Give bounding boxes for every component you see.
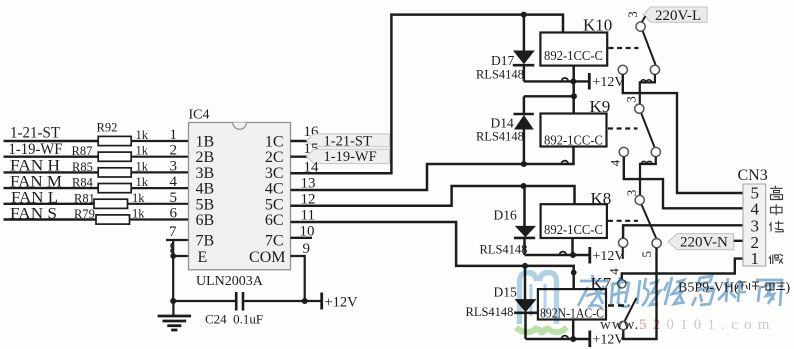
wire pin 7B: [166, 240, 190, 301]
label Chinese high: [770, 186, 783, 200]
wire pin 14 3C to relay K10: [291, 15, 564, 174]
wire K8 +12V rail: [525, 254, 590, 256]
junction 7B/E: [170, 253, 176, 259]
wire pin 13 4C to relay K9: [291, 147, 574, 190]
power +12V at COM: [322, 293, 358, 311]
resistor R79: [96, 215, 130, 224]
relay contact K9: [607, 96, 660, 166]
wire R79 to pin 6: [130, 218, 190, 220]
junction pin12 rail / D16: [521, 183, 527, 189]
wire K8 NC stub: [622, 247, 624, 259]
wire pin 12 5C to relay K8: [291, 186, 575, 206]
diode D17 RLS4148: [476, 15, 535, 82]
junction K7 coil / rail: [570, 336, 576, 342]
net flag 220V-L: [643, 7, 707, 24]
power +12V at K10: [589, 73, 624, 90]
wire K10 +12V rail: [524, 80, 589, 82]
junction pin11 rail / D15: [522, 263, 528, 269]
wire K9 NO to K8 common: [640, 157, 656, 196]
wire 1-19-WF to R87: [4, 155, 99, 157]
label B5P9-VH connector type: [678, 278, 791, 295]
wire K10 NC to CN3 pin 5: [623, 74, 743, 193]
junction pin14 rail / D17: [521, 12, 527, 18]
wire C24 rail: [173, 300, 321, 302]
wire pin 10 stub: [291, 237, 313, 239]
junction E / ground: [170, 298, 176, 304]
ground: [158, 301, 192, 330]
wire R92 to pin 1: [131, 140, 189, 142]
wire D14 top rail: [524, 95, 574, 97]
label Chinese low: [770, 221, 784, 232]
wire COM pin 9 to +12V: [291, 256, 305, 301]
net flag 1-19-WF pin15: [307, 149, 390, 165]
diode D16 RLS4148: [480, 186, 537, 257]
wire FAN S to R79: [4, 218, 97, 220]
wire K8 NO to K7 common: [622, 248, 657, 339]
wire 220V-L stub: [642, 16, 646, 23]
wire pin 11 6C to relay K7: [291, 222, 574, 289]
junction pin13 rail / D14: [521, 161, 527, 167]
wire R87 to pin 2: [131, 156, 189, 158]
junction K8 coil / +12V: [570, 252, 576, 258]
diode D15 RLS4148: [466, 266, 539, 339]
relay coil K7 892N-1AC-C: [538, 274, 612, 321]
wire R81 to pin 5: [128, 203, 190, 205]
IC U IC4 ULN2003A: [189, 108, 291, 289]
wire 220V-N to CN3 pin 2: [734, 240, 743, 242]
resistor R92: [98, 136, 131, 145]
wire FAN H to R85: [4, 171, 99, 173]
resistor R81: [94, 199, 128, 208]
resistor R87: [98, 152, 131, 161]
junction K10 coil / +12V: [570, 78, 576, 84]
relay coil K10 892-1CC-C: [540, 16, 612, 66]
wire FAN M to R84: [4, 187, 99, 189]
label Chinese micro: [769, 254, 783, 264]
net flag 220V-N: [668, 234, 734, 251]
wire E pin: [173, 255, 189, 257]
wire 1-21-ST to R92: [4, 140, 99, 142]
wire R85 to pin 3: [131, 171, 189, 173]
wire K8 NC to CN3 pin 3: [623, 225, 743, 238]
svg-text:520101.com: 520101.com: [639, 317, 776, 333]
relay coil K8 892-1CC-C: [541, 189, 612, 238]
relay coil K9 892-1CC-C: [541, 97, 611, 148]
diode D14 RLS4148: [476, 96, 534, 164]
relay contact K8: [608, 190, 661, 258]
net flag 1-21-ST pin16: [307, 133, 390, 149]
wire K10 NO to K9 common: [640, 74, 655, 104]
relay contact K10: [609, 11, 660, 74]
wire pin 16: [291, 140, 308, 142]
wire K8 coil bottom: [571, 238, 574, 255]
junction COM / C24 rail: [302, 298, 308, 304]
resistor R85: [98, 168, 131, 177]
resistor R84: [98, 184, 131, 193]
junction D14 feed: [571, 93, 577, 99]
relay contact K7: [606, 268, 636, 330]
wire pin 15: [291, 155, 308, 157]
wire K10 coil bottom to K9 top: [572, 66, 575, 114]
wire K7 NO to CN3 pin 1: [622, 259, 743, 280]
connector CN3: [738, 167, 768, 268]
wire R84 to pin 4: [131, 187, 189, 189]
wire K7 bottom rail: [526, 338, 590, 340]
power +12V at K7: [590, 331, 625, 348]
power +12V at K8: [590, 247, 625, 264]
wire K9 NC to CN3 pin 4: [624, 157, 743, 209]
wire FAN L to R81: [4, 203, 95, 205]
junction K7 feed: [571, 270, 577, 276]
capacitor C24: [236, 292, 243, 311]
wire K7 coil bottom: [572, 320, 575, 340]
svg-text:www.: www.: [600, 317, 639, 333]
label Chinese mid: [771, 204, 783, 215]
